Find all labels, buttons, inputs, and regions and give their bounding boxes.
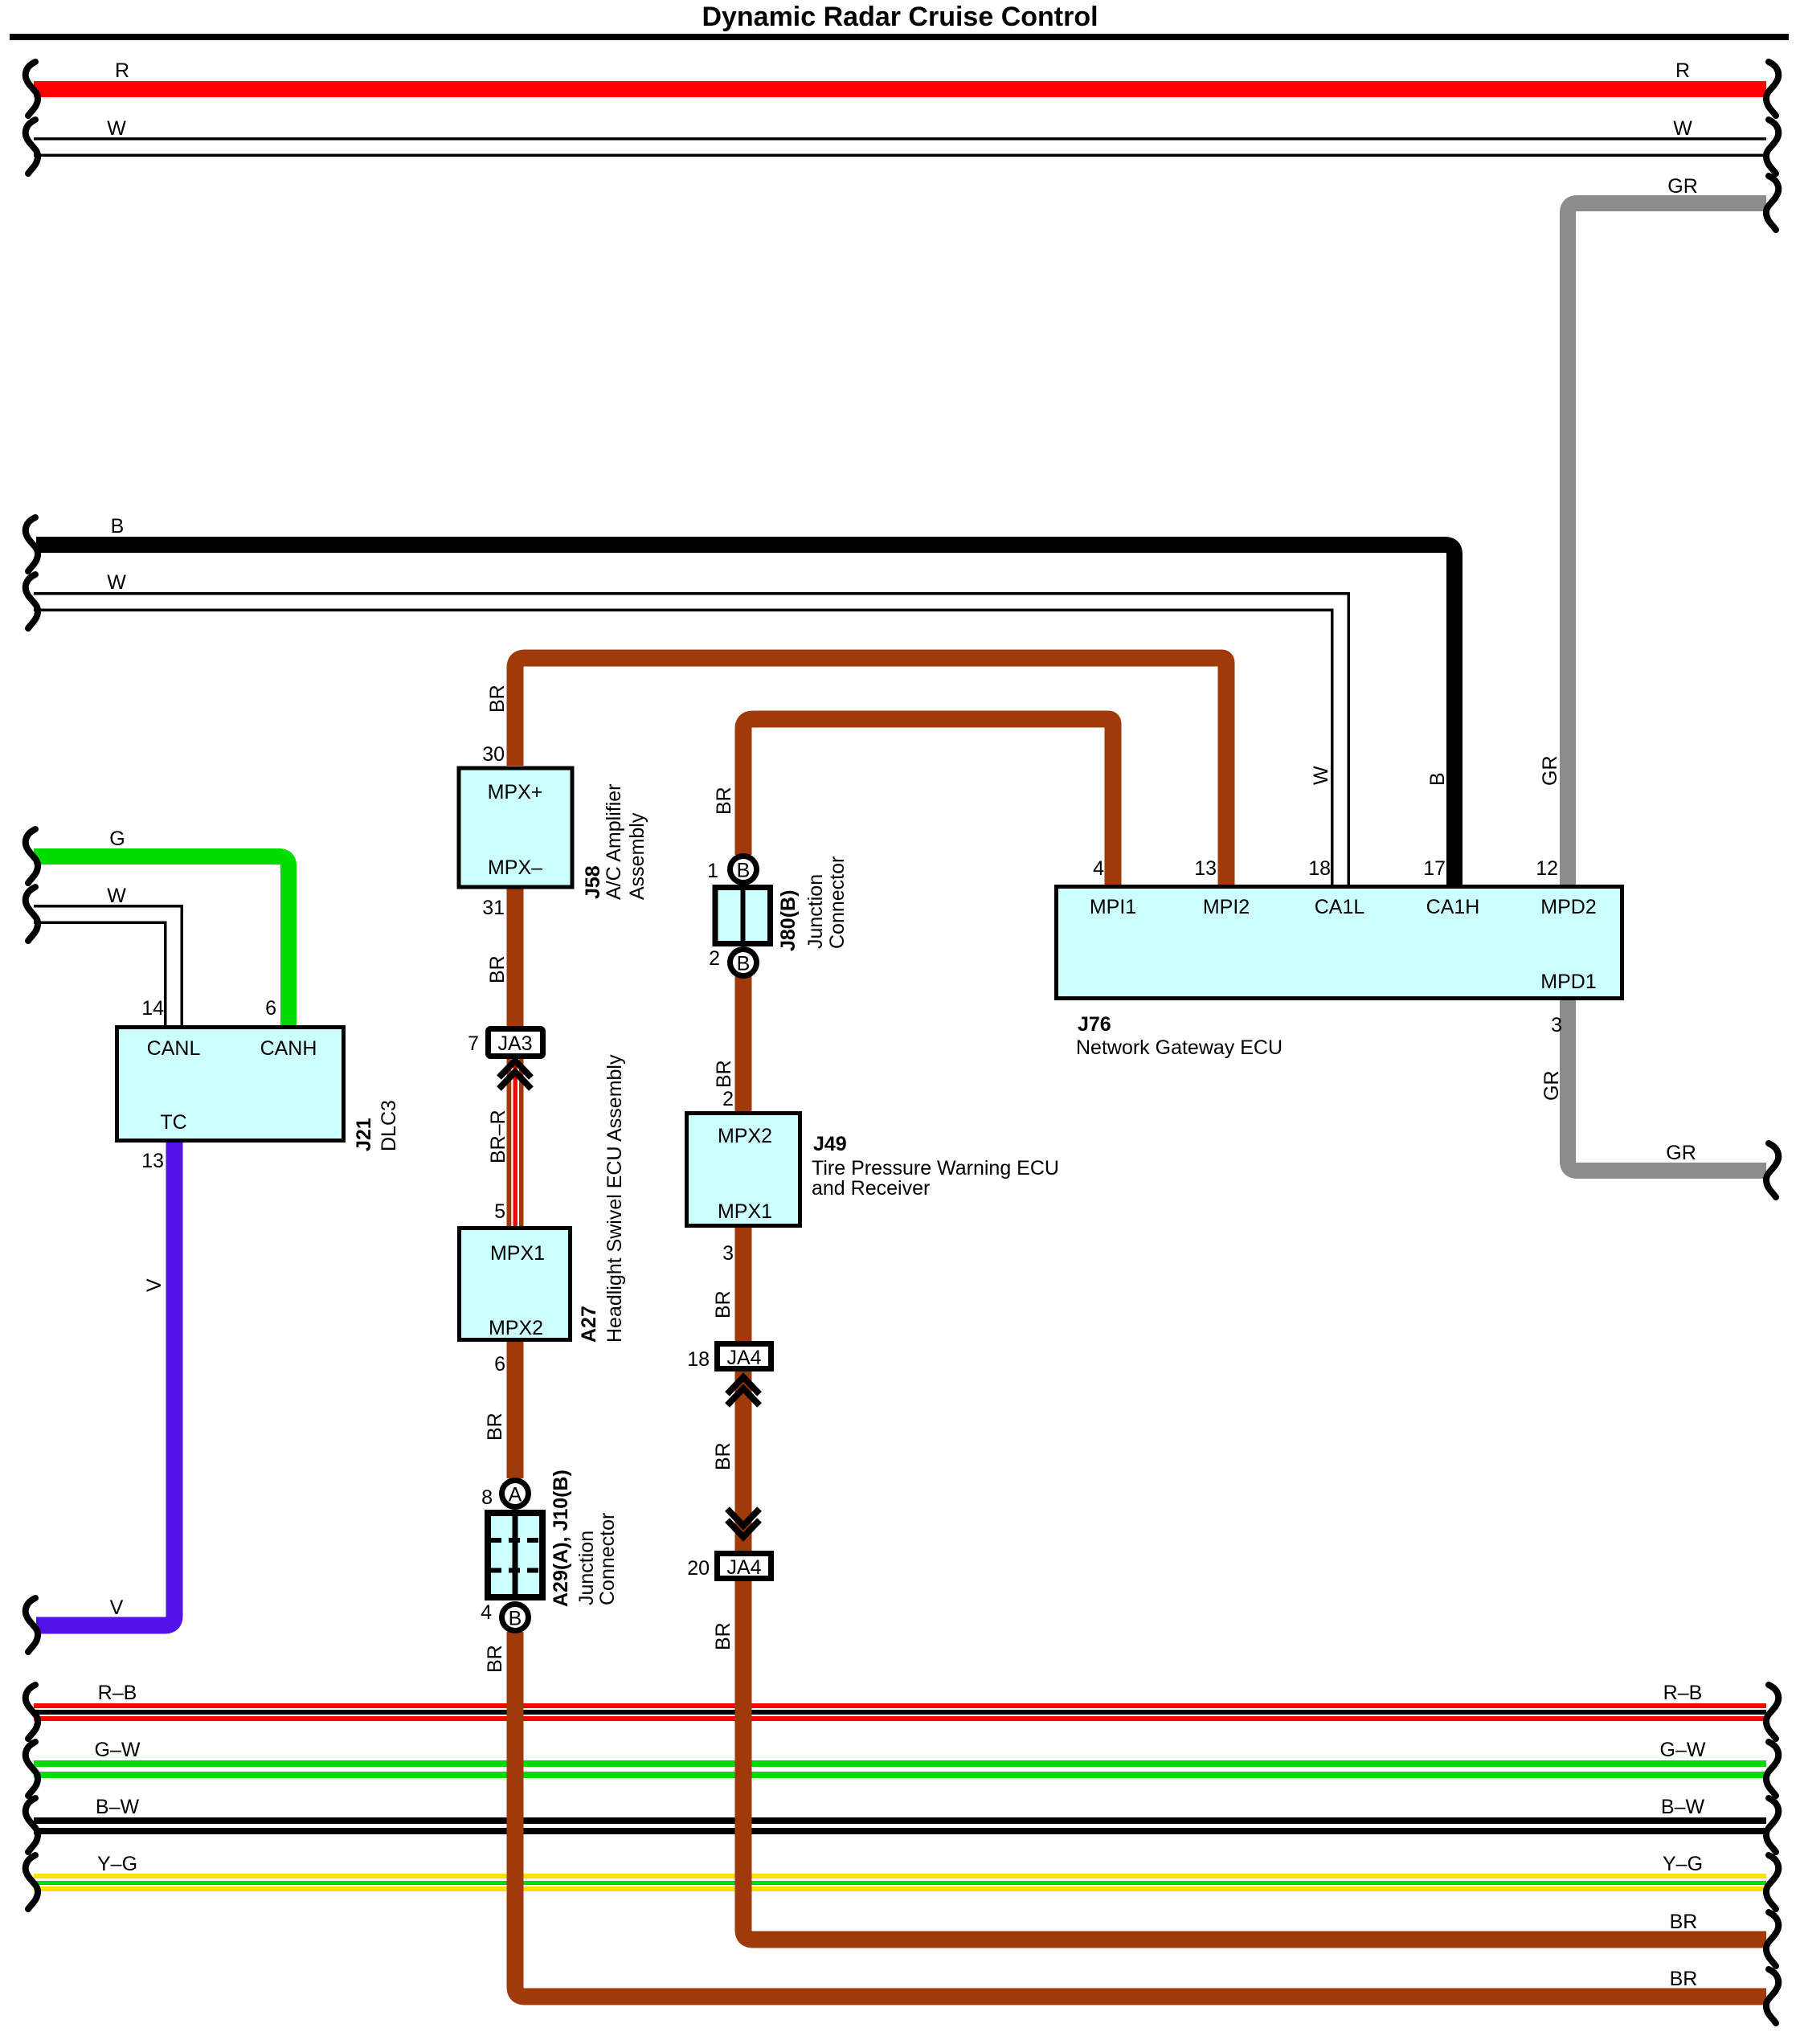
- wire break squiggle left V: [26, 1598, 38, 1652]
- rotated label BR (J49 to JA4): [712, 1290, 734, 1318]
- pin 30 J58: [482, 743, 505, 766]
- rotated label BR (below A29): [484, 1645, 506, 1673]
- label MPD1 in J76: [1540, 971, 1596, 993]
- junction connector J80(B) box: [715, 888, 771, 944]
- wire B-W (black-white striped, bottom): [34, 1817, 1766, 1834]
- label J76 designator: [1078, 1013, 1111, 1036]
- circle A (A29 pin 8): [502, 1481, 529, 1507]
- pin 1 J80: [707, 860, 718, 882]
- svg-text:2: 2: [722, 1088, 734, 1110]
- svg-text:A: A: [509, 1484, 522, 1506]
- chevron shield arrows below JA4 pin 18 (pointing up): [727, 1377, 759, 1405]
- wire BR (brown, J80 circle B pin 1 to J76 MPI1 pin 4): [743, 719, 1113, 885]
- wire break squiggle left B: [26, 517, 38, 571]
- chevron shield arrows below JA3 (pointing up): [499, 1061, 531, 1089]
- rotated label Headlight Swivel ECU Assembly: [603, 1054, 626, 1343]
- svg-text:DLC3: DLC3: [378, 1100, 400, 1151]
- svg-text:20: 20: [687, 1557, 710, 1580]
- rotated label J21 designator: [353, 1118, 375, 1151]
- svg-text:Headlight Swivel ECU Assembly: Headlight Swivel ECU Assembly: [603, 1054, 626, 1343]
- label B-W right: [1661, 1796, 1705, 1818]
- rotated label DLC3: [378, 1100, 400, 1151]
- svg-text:J58: J58: [582, 865, 604, 899]
- pin 8 circle A: [481, 1486, 493, 1509]
- wire G (green, to DLC3 CANH pin 6): [34, 856, 288, 1025]
- label R-B right: [1663, 1682, 1703, 1704]
- rotated label BR (below JA4 20): [712, 1622, 734, 1650]
- svg-text:MPI1: MPI1: [1090, 896, 1136, 918]
- wire BR (brown, JA4 pin 20 down and right to edge): [743, 1581, 1766, 1940]
- rotated label BR (J58 top): [486, 685, 509, 713]
- rotated label Junction (J80): [804, 874, 827, 949]
- svg-text:GR: GR: [1667, 175, 1698, 198]
- svg-text:13: 13: [141, 1150, 164, 1172]
- rotated label Connector (A29): [596, 1513, 619, 1605]
- rotated label J58 designator: [582, 865, 604, 899]
- label CANL in DLC3: [147, 1037, 201, 1060]
- svg-text:6: 6: [494, 1353, 505, 1376]
- label JA3: [497, 1032, 532, 1055]
- svg-text:12: 12: [1536, 857, 1558, 880]
- label MPX1 in A27: [490, 1242, 545, 1265]
- wire V (violet, from DLC3 TC pin 13): [36, 1143, 174, 1625]
- circle B (J80 pin 1): [730, 856, 757, 883]
- wire W (white, to J76 CA1L pin 18): [34, 602, 1340, 885]
- svg-text:BR: BR: [484, 1645, 506, 1673]
- svg-text:A29(A), J10(B): A29(A), J10(B): [550, 1470, 572, 1607]
- rotated label A27 designator: [578, 1306, 600, 1343]
- svg-text:V: V: [110, 1596, 124, 1619]
- svg-text:8: 8: [481, 1486, 493, 1509]
- svg-text:BR: BR: [712, 1622, 734, 1650]
- svg-text:B: B: [111, 515, 125, 538]
- rotated label W (CA1L wire): [1310, 766, 1332, 785]
- label MPI2 in J76: [1203, 896, 1250, 918]
- wire G-W (green-white striped, bottom): [34, 1760, 1766, 1778]
- svg-text:and Receiver: and Receiver: [812, 1177, 930, 1200]
- wire BR (brown, J58 pin 31 to JA3 pin 7): [507, 889, 524, 1026]
- svg-text:W: W: [1673, 117, 1692, 140]
- pin 4 J76 MPI1: [1093, 857, 1104, 880]
- svg-text:MPD1: MPD1: [1540, 971, 1596, 993]
- rotated label GR (MPD1 wire): [1540, 1071, 1563, 1102]
- svg-text:CANL: CANL: [147, 1037, 201, 1060]
- rotated label BR (between JA4): [712, 1442, 734, 1470]
- label GR right middle: [1666, 1142, 1696, 1164]
- rotated label BR (A27 to A29): [484, 1412, 506, 1441]
- wire break squiggle right BR1: [1766, 1912, 1778, 1966]
- label and Receiver: [812, 1177, 930, 1200]
- svg-text:BR: BR: [484, 1412, 506, 1441]
- junction connector A29(A),J10(B) box with grid: [488, 1513, 542, 1597]
- rotated label A/C Amplifier: [603, 784, 625, 900]
- svg-text:3: 3: [1551, 1014, 1562, 1036]
- label JA4 bottom: [726, 1556, 761, 1579]
- svg-text:W: W: [1310, 766, 1332, 785]
- label W left: [107, 117, 126, 140]
- svg-text:Assembly: Assembly: [626, 812, 648, 900]
- junction box JA4 (pin 20): [718, 1554, 771, 1579]
- wire W (white, below R): [34, 137, 1766, 157]
- svg-text:CANH: CANH: [260, 1037, 317, 1060]
- rotated label GR (MPD2 wire): [1539, 756, 1561, 787]
- wire break squiggle right GR2: [1766, 1143, 1778, 1197]
- svg-text:J76: J76: [1078, 1013, 1111, 1036]
- svg-text:Network Gateway ECU: Network Gateway ECU: [1076, 1036, 1282, 1059]
- title underline bar: [10, 34, 1789, 40]
- label R right: [1675, 59, 1690, 82]
- svg-text:V: V: [143, 1278, 166, 1292]
- svg-text:B–W: B–W: [1661, 1796, 1705, 1818]
- wire BR (brown, A29 circle B pin 4 down and right to edge): [515, 1632, 1766, 1997]
- svg-text:BR: BR: [712, 1290, 734, 1318]
- connector box J58 A/C Amplifier Assembly: [459, 768, 572, 887]
- wire B (black, to J76 CA1H pin 17): [36, 545, 1454, 885]
- pin 14 DLC3 CANL: [141, 997, 164, 1020]
- svg-text:BR: BR: [1670, 1911, 1698, 1933]
- svg-text:MPI2: MPI2: [1203, 896, 1250, 918]
- svg-text:Y–G: Y–G: [97, 1853, 137, 1875]
- label G-W right: [1660, 1739, 1706, 1761]
- svg-text:R: R: [115, 59, 129, 82]
- junction box JA4 (pin 18): [718, 1344, 771, 1369]
- wire break squiggle left W3: [26, 887, 38, 941]
- wire R (red, top): [34, 81, 1766, 97]
- wire break squiggle left B-W: [26, 1798, 38, 1852]
- wire break squiggle right B-W: [1766, 1798, 1778, 1852]
- label Network Gateway ECU: [1076, 1036, 1282, 1059]
- svg-text:J80(B): J80(B): [777, 890, 800, 951]
- svg-text:18: 18: [1308, 857, 1331, 880]
- svg-text:G–W: G–W: [1660, 1739, 1706, 1761]
- pin 13 J76 MPI2: [1194, 857, 1217, 880]
- svg-text:MPX–: MPX–: [488, 856, 542, 879]
- svg-text:W: W: [107, 117, 126, 140]
- pin 3 J76 MPD1: [1551, 1014, 1562, 1036]
- svg-text:R–B: R–B: [1663, 1682, 1703, 1704]
- wire break squiggle left G: [26, 829, 38, 883]
- svg-text:Connector: Connector: [596, 1513, 619, 1605]
- circle B (A29 pin 4): [502, 1605, 529, 1631]
- svg-text:7: 7: [468, 1032, 479, 1055]
- label R-B left: [98, 1682, 137, 1704]
- rotated label Junction (A29): [575, 1531, 598, 1605]
- wire GR (gray, from J76 MPD1 pin 3 to right): [1568, 1000, 1766, 1171]
- svg-text:14: 14: [141, 997, 164, 1020]
- rotated label BR (J80 top): [713, 787, 735, 815]
- pin 20 JA4: [687, 1557, 710, 1580]
- pin 6 DLC3 CANH: [265, 997, 276, 1020]
- junction box JA3: [489, 1029, 543, 1057]
- rotated label Assembly: [626, 812, 648, 900]
- label Tire Pressure Warning ECU: [812, 1157, 1059, 1179]
- rotated label V: [143, 1278, 166, 1292]
- label CA1H in J76: [1426, 896, 1480, 918]
- wire break squiggle right G-W: [1766, 1742, 1778, 1796]
- pin 17 J76 CA1H: [1423, 857, 1446, 880]
- svg-text:MPD2: MPD2: [1540, 896, 1596, 918]
- wire break squiggle right Y-G: [1766, 1855, 1778, 1909]
- wire break squiggle right R-B: [1766, 1685, 1778, 1739]
- svg-text:J21: J21: [353, 1118, 375, 1151]
- label MPX1 in J49: [718, 1200, 772, 1223]
- svg-text:BR: BR: [486, 685, 509, 713]
- wire break squiggle right BR2: [1766, 1969, 1778, 2023]
- svg-text:B: B: [509, 1608, 522, 1630]
- label TC in DLC3: [160, 1111, 186, 1134]
- svg-text:G: G: [109, 828, 125, 850]
- connector box J49 Tire Pressure Warning ECU and Receiver: [687, 1114, 800, 1226]
- circle B (J80 pin 2): [730, 950, 757, 976]
- svg-text:MPX1: MPX1: [490, 1242, 545, 1265]
- label MPD2 in J76: [1540, 896, 1596, 918]
- svg-text:BR: BR: [712, 1442, 734, 1470]
- svg-text:W: W: [107, 885, 126, 907]
- svg-text:JA3: JA3: [497, 1032, 532, 1055]
- svg-text:MPX1: MPX1: [718, 1200, 772, 1223]
- label J49 designator: [813, 1133, 847, 1155]
- svg-text:4: 4: [481, 1601, 492, 1624]
- wire BR (brown, A27 pin 6 to junction A29 circle A pin 8): [507, 1342, 524, 1478]
- label MPI1 in J76: [1090, 896, 1136, 918]
- svg-text:GR: GR: [1666, 1142, 1696, 1164]
- wire BR (brown, J58 pin 30 to J76 MPI2 pin 13): [515, 658, 1226, 885]
- pin 4 circle B: [481, 1601, 492, 1624]
- svg-text:Junction: Junction: [804, 874, 827, 949]
- label V left horizontal: [110, 1596, 124, 1619]
- label MPX2 in A27: [489, 1317, 543, 1339]
- label CANH in DLC3: [260, 1037, 317, 1060]
- wire BR-R (brown with red stripe, JA3 to A27 pin 5): [507, 1059, 524, 1226]
- pin 6 A27: [494, 1353, 505, 1376]
- svg-text:B: B: [1426, 772, 1449, 786]
- svg-text:BR: BR: [713, 1060, 735, 1088]
- rotated label A29(A), J10(B) designator: [550, 1470, 572, 1607]
- wire BR (brown, JA4 pin 18 to JA4 pin 20 through chevrons): [735, 1372, 752, 1551]
- svg-text:BR–R: BR–R: [487, 1110, 509, 1163]
- wire W (white, to DLC3 CANL pin 14): [34, 914, 174, 1025]
- svg-text:J49: J49: [813, 1133, 847, 1155]
- svg-text:G–W: G–W: [95, 1739, 141, 1761]
- rotated label BR (J80 to J49): [713, 1060, 735, 1088]
- wire R-B (red-black striped, bottom): [34, 1703, 1766, 1721]
- svg-text:A/C Amplifier: A/C Amplifier: [603, 784, 625, 900]
- pin 2 J80: [709, 947, 720, 970]
- connector box J21 DLC3: [117, 1028, 344, 1141]
- wire break squiggle left R: [26, 62, 38, 116]
- label W right: [1673, 117, 1692, 140]
- rotated label J80(B) designator: [777, 890, 800, 951]
- svg-text:5: 5: [494, 1200, 505, 1223]
- connector box J76 Network Gateway ECU: [1057, 887, 1622, 999]
- svg-text:30: 30: [482, 743, 505, 766]
- title: Dynamic Radar Cruise Control: [702, 2, 1098, 32]
- label Y-G right: [1663, 1853, 1703, 1875]
- pin 13 DLC3 TC: [141, 1150, 164, 1172]
- pin 5 A27: [494, 1200, 505, 1223]
- chevron shield arrows above JA4 pin 20 (pointing down): [727, 1509, 759, 1537]
- rotated label BR-R: [487, 1110, 509, 1163]
- pin 3 J49: [722, 1242, 734, 1265]
- wire break squiggle left W2: [26, 574, 38, 628]
- wire break squiggle left Y-G: [26, 1855, 38, 1909]
- wire break squiggle right R: [1766, 62, 1778, 116]
- label BR right 1: [1670, 1911, 1698, 1933]
- pin 18 J76 CA1L: [1308, 857, 1331, 880]
- wire break squiggle right W: [1766, 120, 1778, 174]
- svg-text:2: 2: [709, 947, 720, 970]
- label BR right 2: [1670, 1968, 1698, 1990]
- label B left: [111, 515, 125, 538]
- label G left: [109, 828, 125, 850]
- svg-text:MPX2: MPX2: [489, 1317, 543, 1339]
- svg-text:18: 18: [687, 1348, 710, 1371]
- svg-text:B: B: [737, 953, 751, 975]
- svg-text:31: 31: [482, 897, 505, 919]
- pin 18 JA4: [687, 1348, 710, 1371]
- label MPX+ in J58: [488, 781, 543, 803]
- svg-text:17: 17: [1423, 857, 1446, 880]
- svg-text:6: 6: [265, 997, 276, 1020]
- rotated label BR (J58 bottom): [486, 955, 509, 983]
- svg-text:TC: TC: [160, 1111, 186, 1134]
- svg-text:Connector: Connector: [826, 856, 849, 949]
- svg-text:BR: BR: [713, 787, 735, 815]
- svg-text:GR: GR: [1540, 1071, 1563, 1102]
- wire Y-G (yellow-green striped, bottom): [34, 1874, 1766, 1891]
- svg-text:R: R: [1675, 59, 1690, 82]
- svg-text:CA1H: CA1H: [1426, 896, 1480, 918]
- svg-text:Y–G: Y–G: [1663, 1853, 1703, 1875]
- wire break squiggle left G-W: [26, 1742, 38, 1796]
- svg-text:GR: GR: [1539, 756, 1561, 787]
- svg-text:R–B: R–B: [98, 1682, 137, 1704]
- svg-text:B: B: [737, 860, 751, 882]
- wire BR (brown, J80 circle B pin 2 to J49 MPX2 pin 2): [735, 976, 752, 1111]
- label W3 left: [107, 885, 126, 907]
- svg-text:13: 13: [1194, 857, 1217, 880]
- svg-text:BR: BR: [486, 955, 509, 983]
- wire BR (brown, J49 MPX1 pin 3 to JA4 pin 18): [735, 1228, 752, 1341]
- svg-text:MPX+: MPX+: [488, 781, 543, 803]
- svg-text:MPX2: MPX2: [718, 1125, 772, 1147]
- label GR right top: [1667, 175, 1698, 198]
- svg-text:4: 4: [1093, 857, 1104, 880]
- connector box A27 Headlight Swivel ECU Assembly: [460, 1228, 571, 1340]
- label W2 left: [107, 571, 126, 594]
- svg-text:JA4: JA4: [726, 1556, 761, 1579]
- svg-text:JA4: JA4: [726, 1347, 761, 1369]
- svg-text:CA1L: CA1L: [1315, 896, 1365, 918]
- svg-text:1: 1: [707, 860, 718, 882]
- svg-text:Dynamic Radar Cruise Control: Dynamic Radar Cruise Control: [702, 2, 1098, 32]
- wire break squiggle right GR: [1766, 176, 1778, 230]
- svg-text:A27: A27: [578, 1306, 600, 1343]
- pin 7 JA3: [468, 1032, 479, 1055]
- wire GR (gray, top right, to J76 MPD2 pin 12): [1568, 203, 1766, 885]
- rotated label B (CA1H wire): [1426, 772, 1449, 786]
- label MPX2 in J49: [718, 1125, 772, 1147]
- svg-text:W: W: [107, 571, 126, 594]
- svg-text:Tire Pressure Warning ECU: Tire Pressure Warning ECU: [812, 1157, 1059, 1179]
- svg-text:3: 3: [722, 1242, 734, 1265]
- label Y-G left: [97, 1853, 137, 1875]
- label CA1L in J76: [1315, 896, 1365, 918]
- label G-W left: [95, 1739, 141, 1761]
- svg-text:B–W: B–W: [96, 1796, 140, 1818]
- pin 2 J49: [722, 1088, 734, 1110]
- label R left: [115, 59, 129, 82]
- label B-W left: [96, 1796, 140, 1818]
- svg-text:Junction: Junction: [575, 1531, 598, 1605]
- pin 12 J76 MPD2: [1536, 857, 1558, 880]
- wire break squiggle left W: [26, 120, 38, 174]
- label MPX- in J58: [488, 856, 542, 879]
- svg-text:BR: BR: [1670, 1968, 1698, 1990]
- pin 31 J58: [482, 897, 505, 919]
- rotated label Connector (J80): [826, 856, 849, 949]
- label JA4 top: [726, 1347, 761, 1369]
- wire break squiggle left R-B: [26, 1685, 38, 1739]
